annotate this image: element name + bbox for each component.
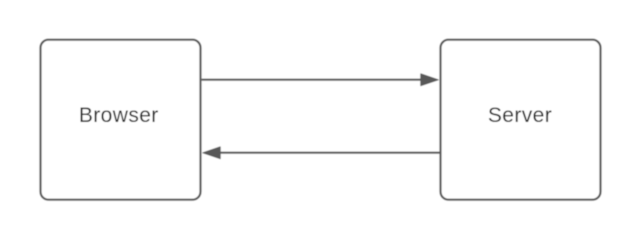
svg-text:Server: Server: [488, 104, 552, 127]
svg-text:Browser: Browser: [79, 104, 159, 127]
box Server: [441, 40, 601, 200]
bottom arrowhead: [203, 147, 220, 159]
wire bottom arrow shaft: [220, 152, 440, 154]
wire top arrow shaft: [202, 79, 421, 81]
box Browser: [41, 40, 201, 200]
top arrowhead: [421, 74, 439, 86]
